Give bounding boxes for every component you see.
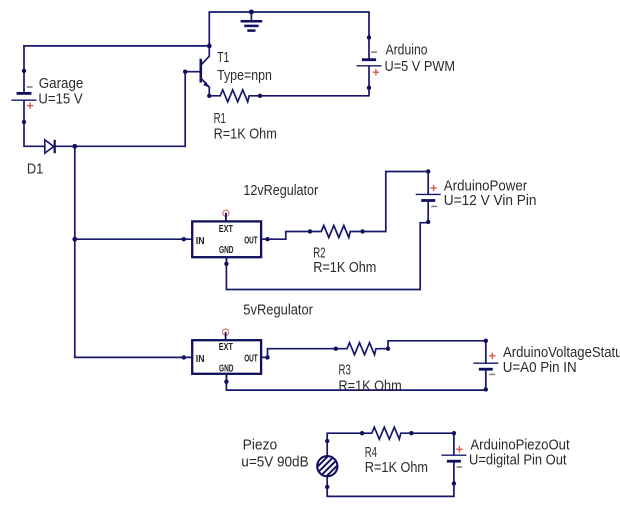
svg-text:GND: GND (219, 245, 234, 256)
svg-text:5vRegulator: 5vRegulator (243, 302, 313, 319)
svg-text:Piezo: Piezo (243, 437, 278, 454)
svg-text:EXT: EXT (219, 342, 233, 353)
svg-text:OUT: OUT (244, 354, 257, 365)
svg-text:U=5 V PWM: U=5 V PWM (385, 58, 456, 75)
svg-text:EXT: EXT (219, 224, 233, 235)
svg-text:IN: IN (196, 236, 205, 247)
svg-text:R=1K Ohm: R=1K Ohm (313, 259, 376, 276)
svg-text:Garage: Garage (39, 75, 84, 92)
svg-text:D1: D1 (27, 161, 43, 178)
svg-text:U=12 V Vin Pin: U=12 V Vin Pin (444, 192, 537, 209)
svg-text:R=1K Ohm: R=1K Ohm (214, 126, 277, 143)
svg-text:R3: R3 (339, 362, 351, 379)
svg-text:U=digital Pin Out: U=digital Pin Out (469, 452, 567, 469)
svg-text:OUT: OUT (244, 236, 257, 247)
svg-text:GND: GND (219, 363, 234, 374)
svg-text:R1: R1 (214, 110, 226, 127)
svg-text:Type=npn: Type=npn (217, 67, 272, 84)
svg-text:U=15 V: U=15 V (38, 91, 82, 108)
svg-text:U=A0 Pin IN: U=A0 Pin IN (503, 359, 577, 376)
svg-text:T1: T1 (217, 49, 229, 66)
svg-text:R=1K Ohm: R=1K Ohm (339, 377, 402, 394)
svg-text:IN: IN (196, 354, 205, 365)
svg-text:Arduino: Arduino (386, 42, 428, 59)
svg-text:12vRegulator: 12vRegulator (243, 182, 318, 199)
svg-text:u=5V 90dB: u=5V 90dB (241, 454, 308, 471)
svg-text:R=1K Ohm: R=1K Ohm (365, 459, 428, 476)
